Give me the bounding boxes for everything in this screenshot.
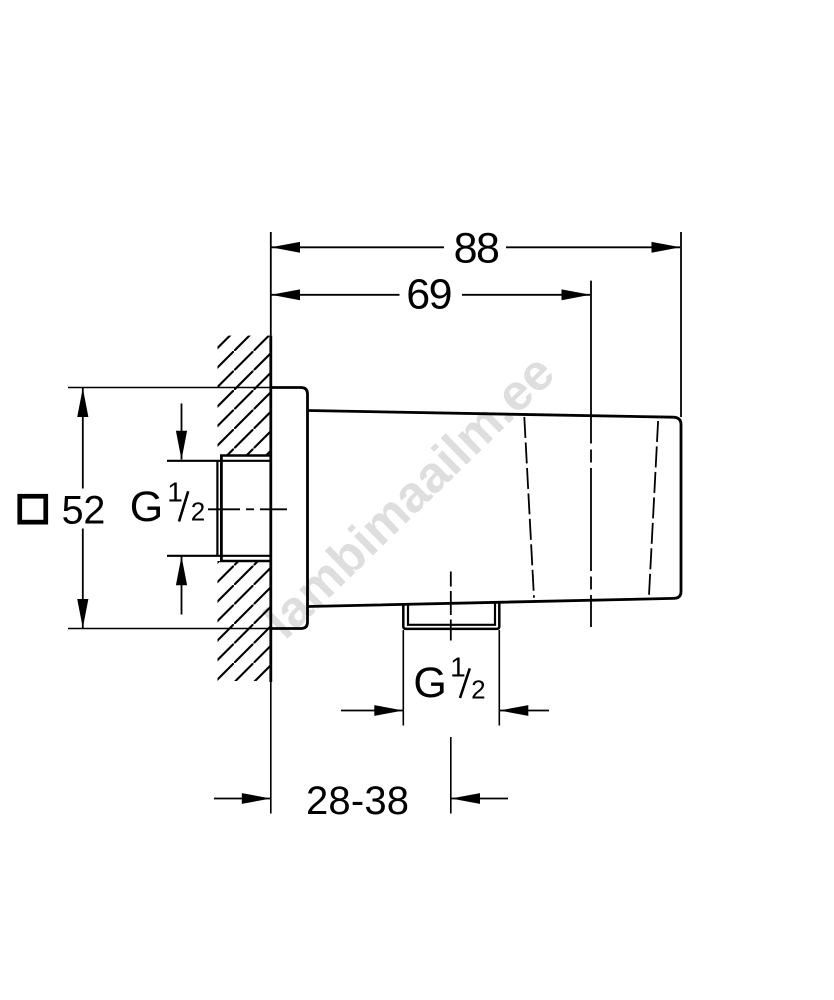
svg-text:G: G (130, 483, 163, 531)
svg-text:2: 2 (471, 675, 485, 705)
svg-text:1: 1 (167, 477, 183, 508)
svg-text:52: 52 (62, 489, 106, 533)
svg-text:1: 1 (450, 652, 466, 683)
svg-text:69: 69 (406, 271, 451, 319)
svg-text:G: G (413, 659, 446, 707)
svg-text:28-38: 28-38 (306, 779, 409, 823)
svg-text:88: 88 (454, 225, 499, 273)
svg-text:2: 2 (191, 496, 205, 526)
